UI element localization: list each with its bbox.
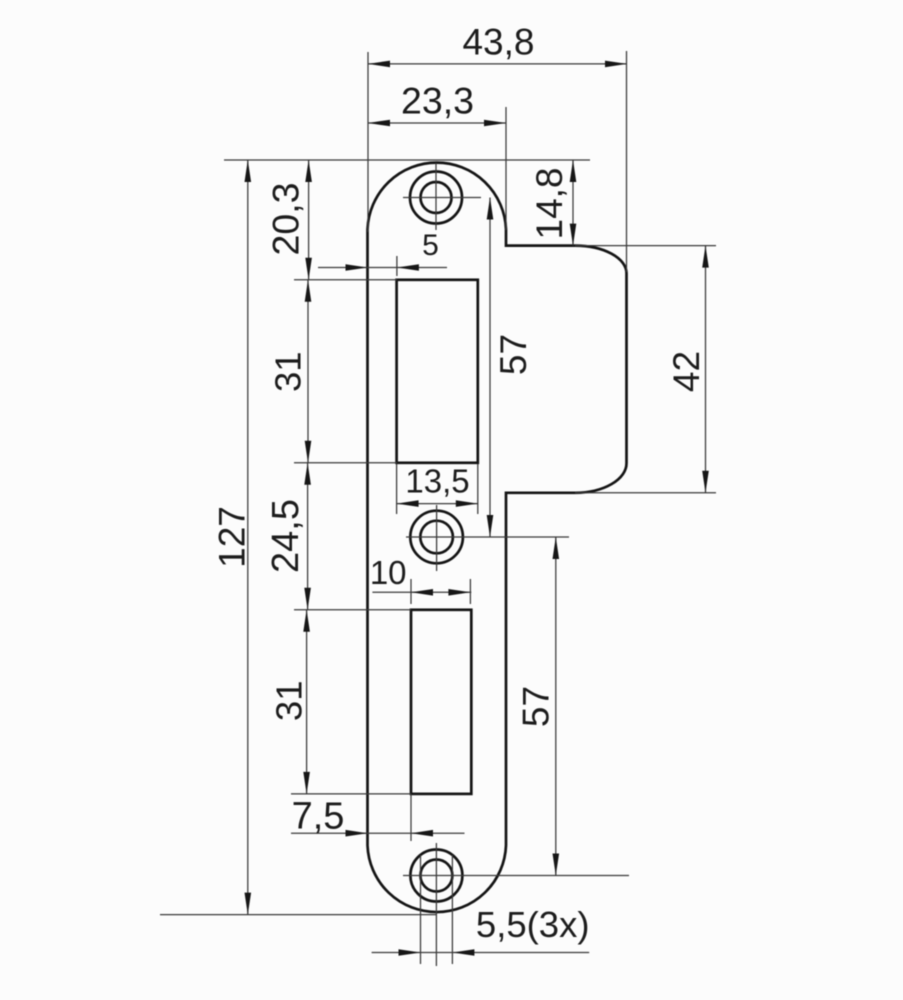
svg-text:43,8: 43,8 bbox=[462, 22, 534, 63]
extension line plate bottom bbox=[160, 914, 437, 916]
screw hole top centerlines bbox=[403, 163, 481, 230]
extension tick for dim 5 bbox=[396, 256, 398, 276]
lower latch cutout bbox=[411, 610, 471, 794]
extension line plate top bbox=[224, 159, 590, 161]
extension line upper cutout top bbox=[294, 279, 397, 281]
screw hole top inner bbox=[421, 182, 452, 213]
dimension 5,5(3x) bbox=[372, 904, 590, 956]
svg-text:23,3: 23,3 bbox=[401, 80, 474, 122]
dimension 7,5 bbox=[291, 796, 465, 838]
dimension 5 bbox=[318, 229, 447, 271]
svg-text:57: 57 bbox=[516, 686, 557, 727]
extension line plate right step (vertical) bbox=[505, 107, 507, 230]
dimension 23,3 bbox=[368, 80, 506, 127]
svg-text:20,3: 20,3 bbox=[265, 183, 307, 256]
extension line lip top right bbox=[575, 245, 716, 247]
screw hole middle inner bbox=[420, 521, 453, 554]
extension line lower cutout bottom bbox=[291, 793, 411, 795]
extension lines dim 13,5 bbox=[397, 464, 478, 514]
screw hole top outer bbox=[410, 172, 462, 224]
screw hole middle centerlines bbox=[406, 505, 569, 571]
screw hole bottom outer bbox=[410, 850, 462, 902]
svg-text:42: 42 bbox=[666, 351, 707, 392]
svg-text:7,5: 7,5 bbox=[292, 796, 345, 838]
extension line dim 7,5 right bbox=[410, 794, 412, 841]
svg-text:24,5: 24,5 bbox=[265, 499, 307, 573]
screw hole middle outer bbox=[410, 511, 463, 564]
dimension 31 upper bbox=[268, 280, 312, 463]
dimension 20,3 bbox=[265, 160, 312, 280]
svg-text:10: 10 bbox=[370, 554, 407, 591]
extension line lower cutout top bbox=[294, 609, 411, 611]
dimension 13,5 bbox=[397, 463, 478, 507]
dimension 43,8 bbox=[368, 22, 627, 68]
svg-text:5,5(3x): 5,5(3x) bbox=[476, 904, 590, 945]
svg-text:57: 57 bbox=[493, 334, 534, 375]
screw hole bottom inner bbox=[420, 860, 452, 892]
extension lines dim 10 bbox=[411, 579, 470, 604]
dimension 42 bbox=[666, 246, 709, 493]
extension line lip right (vertical) bbox=[626, 51, 628, 272]
extension lines dim 5,5 bbox=[421, 855, 453, 964]
svg-text:31: 31 bbox=[268, 351, 309, 392]
extension line upper cutout bottom bbox=[294, 462, 397, 464]
dimension 14,8 bbox=[529, 160, 576, 246]
screw hole bottom centerlines bbox=[403, 843, 629, 966]
dimension 57 upper bbox=[487, 198, 534, 538]
plate outline with lip bbox=[368, 163, 627, 912]
dimension 31 lower bbox=[269, 610, 310, 794]
dimension 127 bbox=[212, 160, 253, 915]
svg-text:31: 31 bbox=[269, 680, 310, 721]
svg-text:13,5: 13,5 bbox=[405, 463, 469, 500]
extension line lip bottom right bbox=[575, 492, 716, 494]
svg-text:127: 127 bbox=[212, 506, 253, 568]
extension line plate left (vertical, top dims) bbox=[367, 52, 369, 232]
svg-text:5: 5 bbox=[422, 229, 439, 262]
upper latch cutout bbox=[397, 280, 478, 463]
dimension 10 bbox=[370, 554, 471, 596]
dimension 24,5 bbox=[265, 463, 311, 610]
svg-text:14,8: 14,8 bbox=[529, 167, 570, 239]
dimension 57 lower bbox=[516, 537, 560, 876]
